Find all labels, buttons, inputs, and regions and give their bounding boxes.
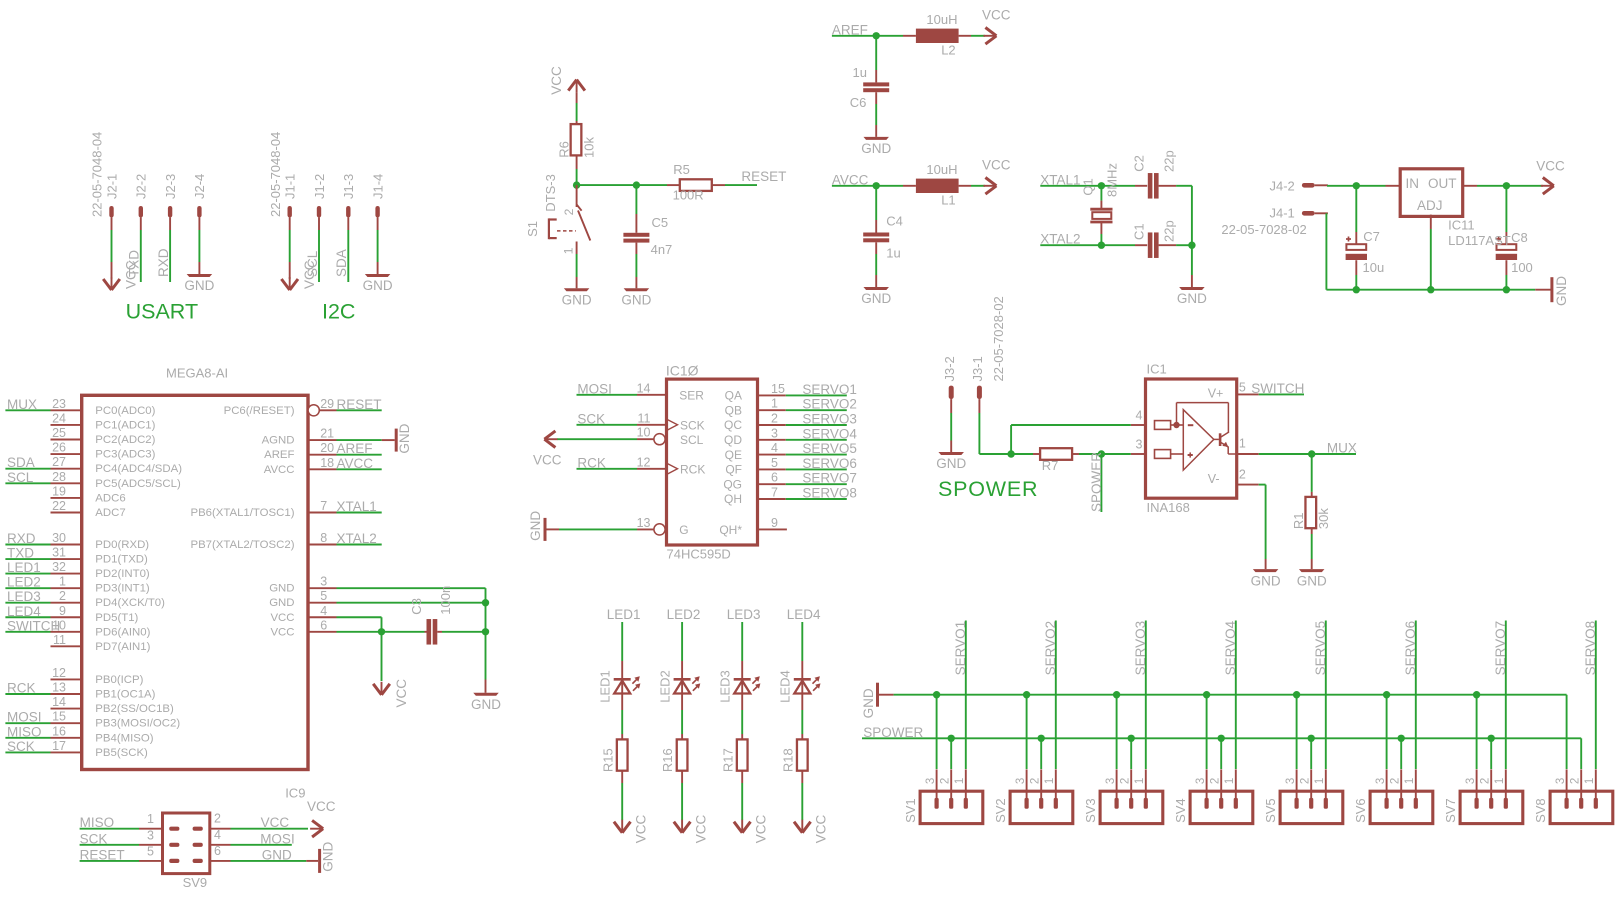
svg-text:2: 2 (1030, 778, 1042, 784)
svg-text:SPOWER: SPOWER (938, 477, 1038, 501)
svg-text:V-: V- (1208, 472, 1220, 486)
svg-text:PB0(ICP): PB0(ICP) (95, 674, 143, 686)
svg-text:PC1(ADC1): PC1(ADC1) (95, 419, 155, 431)
svg-text:GND: GND (262, 847, 292, 862)
svg-text:LD117AST: LD117AST (1448, 233, 1511, 248)
svg-text:C1: C1 (1131, 223, 1146, 240)
svg-text:22: 22 (52, 499, 66, 513)
svg-text:2: 2 (771, 412, 778, 426)
svg-text:74HC595D: 74HC595D (667, 547, 731, 562)
svg-text:SERVO5: SERVO5 (1313, 621, 1328, 676)
svg-text:C6: C6 (850, 95, 867, 110)
svg-text:22-05-7048-04: 22-05-7048-04 (90, 132, 105, 217)
svg-text:C5: C5 (652, 215, 669, 230)
svg-text:QG: QG (723, 477, 742, 491)
svg-text:VCC: VCC (982, 8, 1011, 23)
svg-text:PD5(T1): PD5(T1) (95, 612, 138, 624)
svg-text:C2: C2 (1131, 155, 1146, 172)
svg-text:5: 5 (1239, 380, 1246, 394)
svg-text:MOSI: MOSI (7, 710, 42, 725)
svg-text:22-05-7048-04: 22-05-7048-04 (268, 132, 283, 217)
svg-text:14: 14 (637, 381, 651, 395)
svg-text:30k: 30k (1316, 508, 1331, 529)
svg-text:R7: R7 (1042, 458, 1059, 473)
svg-text:IC9: IC9 (285, 785, 305, 800)
svg-text:1u: 1u (853, 65, 867, 80)
svg-text:PB7(XTAL2/TOSC2): PB7(XTAL2/TOSC2) (190, 539, 294, 551)
svg-text:30: 30 (52, 531, 66, 545)
svg-text:LED3: LED3 (7, 589, 41, 604)
svg-text:L1: L1 (941, 193, 955, 208)
svg-text:AREF: AREF (264, 449, 294, 461)
svg-text:SERVO3: SERVO3 (802, 412, 857, 427)
svg-text:J1-4: J1-4 (370, 174, 385, 199)
svg-text:PB6(XTAL1/TOSC1): PB6(XTAL1/TOSC1) (190, 507, 294, 519)
svg-text:PD3(INT1): PD3(INT1) (95, 583, 150, 595)
svg-text:1: 1 (1314, 778, 1326, 784)
svg-text:VCC: VCC (533, 452, 562, 467)
svg-text:GND: GND (861, 688, 876, 718)
svg-text:J1-2: J1-2 (312, 174, 327, 199)
svg-text:G: G (679, 523, 688, 537)
svg-text:RXD: RXD (7, 531, 36, 546)
svg-text:2: 2 (1390, 778, 1402, 784)
svg-text:SV8: SV8 (1533, 798, 1548, 823)
svg-text:26: 26 (52, 441, 66, 455)
svg-text:J2-3: J2-3 (163, 174, 178, 199)
svg-text:R17: R17 (720, 748, 735, 772)
svg-text:MUX: MUX (7, 397, 37, 412)
svg-text:RESET: RESET (741, 169, 786, 184)
svg-text:RESET: RESET (337, 397, 382, 412)
svg-text:L2: L2 (941, 43, 955, 58)
svg-text:LED2: LED2 (658, 670, 673, 703)
svg-text:J2-2: J2-2 (134, 174, 149, 199)
svg-text:2: 2 (59, 589, 66, 603)
svg-text:PD0(RXD): PD0(RXD) (95, 539, 149, 551)
svg-text:22p: 22p (1162, 220, 1177, 242)
svg-text:2: 2 (1570, 778, 1582, 784)
svg-text:MISO: MISO (80, 815, 115, 830)
svg-text:LED4: LED4 (787, 607, 821, 622)
svg-text:1: 1 (1404, 778, 1416, 784)
svg-text:17: 17 (52, 739, 66, 753)
svg-text:8MHz: 8MHz (1104, 163, 1119, 197)
svg-text:SV2: SV2 (993, 798, 1008, 823)
svg-text:I2C: I2C (322, 299, 355, 323)
svg-text:GND: GND (936, 456, 966, 471)
svg-text:VCC: VCC (261, 815, 290, 830)
svg-text:SV3: SV3 (1083, 798, 1098, 823)
svg-text:ADC7: ADC7 (95, 507, 125, 519)
svg-text:MEGA8-AI: MEGA8-AI (166, 366, 228, 381)
svg-text:PD4(XCK/T0): PD4(XCK/T0) (95, 597, 165, 609)
svg-text:LED3: LED3 (718, 670, 733, 703)
svg-text:PB4(MISO): PB4(MISO) (95, 732, 153, 744)
svg-text:13: 13 (637, 516, 651, 530)
svg-text:21: 21 (320, 427, 334, 441)
svg-text:MISO: MISO (7, 724, 42, 739)
svg-text:18: 18 (320, 456, 334, 470)
svg-text:3: 3 (147, 828, 154, 842)
svg-text:SERVO4: SERVO4 (802, 426, 857, 441)
svg-text:1: 1 (1134, 778, 1146, 784)
svg-text:QE: QE (725, 448, 742, 462)
svg-text:31: 31 (52, 546, 66, 560)
svg-text:SERVO6: SERVO6 (802, 456, 857, 471)
svg-text:20: 20 (320, 441, 334, 455)
svg-text:1: 1 (147, 812, 154, 826)
svg-text:J3-1: J3-1 (970, 356, 985, 381)
svg-text:12: 12 (52, 666, 66, 680)
svg-text:LED3: LED3 (727, 607, 761, 622)
svg-text:2: 2 (1210, 778, 1222, 784)
svg-text:3: 3 (771, 426, 778, 440)
svg-text:VCC: VCC (753, 815, 768, 844)
svg-text:5: 5 (320, 589, 327, 603)
svg-text:LED1: LED1 (7, 560, 41, 575)
svg-text:PB5(SCK): PB5(SCK) (95, 747, 148, 759)
svg-text:1: 1 (771, 397, 778, 411)
svg-text:SV4: SV4 (1173, 798, 1188, 823)
svg-text:10: 10 (637, 426, 651, 440)
svg-text:XTAL2: XTAL2 (337, 531, 377, 546)
svg-text:PC6(/RESET): PC6(/RESET) (224, 405, 295, 417)
svg-text:14: 14 (52, 695, 66, 709)
svg-text:VCC: VCC (270, 612, 294, 624)
svg-text:100R: 100R (673, 187, 704, 202)
svg-text:SCK: SCK (7, 739, 35, 754)
svg-text:PB3(MOSI/OC2): PB3(MOSI/OC2) (95, 718, 180, 730)
svg-text:23: 23 (52, 397, 66, 411)
svg-text:VCC: VCC (394, 679, 409, 708)
svg-text:SERVO7: SERVO7 (1493, 621, 1508, 676)
svg-text:SERVO2: SERVO2 (1043, 621, 1058, 676)
svg-text:SERVO4: SERVO4 (1223, 620, 1238, 675)
svg-text:5: 5 (771, 456, 778, 470)
svg-text:4: 4 (1136, 409, 1143, 423)
svg-text:GND: GND (528, 511, 543, 541)
svg-text:SDA: SDA (334, 249, 349, 277)
svg-text:15: 15 (52, 710, 66, 724)
svg-text:QA: QA (725, 389, 742, 403)
svg-text:LED1: LED1 (598, 670, 613, 703)
svg-text:SV9: SV9 (183, 875, 208, 890)
svg-text:RCK: RCK (7, 681, 36, 696)
svg-text:C8: C8 (1511, 230, 1528, 245)
svg-text:SERVO5: SERVO5 (802, 441, 857, 456)
svg-text:2: 2 (1300, 778, 1312, 784)
svg-text:2: 2 (214, 812, 221, 826)
svg-text:100n: 100n (438, 586, 453, 615)
svg-text:1: 1 (954, 778, 966, 784)
svg-text:GND: GND (397, 423, 412, 453)
svg-text:1: 1 (1239, 437, 1246, 451)
svg-text:AVCC: AVCC (264, 464, 295, 476)
svg-text:4n7: 4n7 (651, 242, 673, 257)
svg-text:Q1: Q1 (1081, 178, 1096, 195)
svg-text:7: 7 (320, 499, 327, 513)
svg-text:PD7(AIN1): PD7(AIN1) (95, 641, 150, 653)
svg-text:VCC: VCC (307, 799, 336, 814)
svg-text:GND: GND (562, 293, 592, 308)
svg-text:100: 100 (1511, 260, 1533, 275)
svg-text:AREF: AREF (337, 441, 373, 456)
svg-text:22p: 22p (1162, 150, 1177, 172)
svg-text:S1: S1 (525, 221, 540, 237)
svg-text:GND: GND (621, 293, 651, 308)
svg-text:RXD: RXD (156, 248, 171, 277)
svg-text:10u: 10u (1363, 260, 1385, 275)
svg-text:SV7: SV7 (1443, 798, 1458, 823)
svg-text:5: 5 (147, 844, 154, 858)
svg-text:ADJ: ADJ (1417, 198, 1443, 213)
svg-text:QC: QC (724, 418, 742, 432)
svg-text:R15: R15 (600, 748, 615, 772)
svg-text:SCL: SCL (7, 470, 34, 485)
svg-text:GND: GND (861, 291, 891, 306)
svg-text:15: 15 (771, 382, 785, 396)
svg-text:PB2(SS/OC1B): PB2(SS/OC1B) (95, 703, 174, 715)
svg-text:R1: R1 (1291, 512, 1306, 529)
svg-text:SERVO1: SERVO1 (802, 382, 857, 397)
svg-text:2: 2 (940, 778, 952, 784)
svg-text:GND: GND (1297, 573, 1327, 588)
svg-text:IC1Ø: IC1Ø (666, 363, 699, 379)
svg-text:VCC: VCC (270, 626, 294, 638)
svg-text:RESET: RESET (80, 847, 125, 862)
svg-text:GND: GND (363, 278, 393, 293)
svg-text:1: 1 (1494, 778, 1506, 784)
svg-text:SPOWER: SPOWER (1089, 452, 1104, 512)
svg-text:TXD: TXD (127, 250, 142, 277)
svg-text:J1-3: J1-3 (341, 174, 356, 199)
svg-text:8: 8 (320, 531, 327, 545)
svg-text:SCL: SCL (680, 433, 704, 447)
svg-text:R16: R16 (660, 748, 675, 772)
svg-text:SERVO2: SERVO2 (802, 397, 857, 412)
svg-text:V+: V+ (1208, 387, 1224, 401)
svg-text:SERVO6: SERVO6 (1403, 621, 1418, 676)
svg-text:3: 3 (1375, 778, 1387, 784)
svg-text:J2-1: J2-1 (104, 174, 119, 199)
svg-text:QH*: QH* (719, 523, 742, 537)
svg-text:PC0(ADC0): PC0(ADC0) (95, 405, 155, 417)
svg-text:SER: SER (679, 388, 704, 402)
svg-text:AGND: AGND (262, 435, 295, 447)
svg-text:3: 3 (1195, 778, 1207, 784)
svg-text:SERVO1: SERVO1 (953, 621, 968, 676)
svg-text:VCC: VCC (693, 815, 708, 844)
svg-text:1: 1 (561, 247, 575, 254)
svg-text:PD1(TXD): PD1(TXD) (95, 554, 148, 566)
svg-text:GND: GND (269, 583, 294, 595)
svg-text:J2-4: J2-4 (192, 174, 207, 199)
svg-text:10k: 10k (582, 137, 597, 158)
svg-text:GND: GND (1177, 291, 1207, 306)
svg-text:3: 3 (925, 778, 937, 784)
svg-text:1u: 1u (886, 245, 900, 260)
svg-text:SWITCH: SWITCH (7, 618, 60, 633)
svg-text:VCC: VCC (814, 815, 829, 844)
svg-text:PC5(ADC5/SCL): PC5(ADC5/SCL) (95, 478, 181, 490)
svg-text:VCC: VCC (1536, 158, 1565, 173)
svg-text:2: 2 (1120, 778, 1132, 784)
svg-text:SCK: SCK (80, 831, 108, 846)
svg-text:3: 3 (1555, 778, 1567, 784)
svg-text:C3: C3 (409, 598, 424, 615)
svg-text:SV1: SV1 (903, 798, 918, 823)
svg-text:QF: QF (725, 463, 742, 477)
svg-text:16: 16 (52, 724, 66, 738)
svg-text:J1-1: J1-1 (283, 174, 298, 199)
svg-text:SCK: SCK (577, 411, 605, 426)
svg-text:LED4: LED4 (778, 670, 793, 703)
svg-text:VCC: VCC (633, 815, 648, 844)
svg-text:TXD: TXD (7, 546, 34, 561)
svg-text:32: 32 (52, 560, 66, 574)
svg-text:GND: GND (321, 842, 336, 872)
svg-text:J4-1: J4-1 (1270, 206, 1295, 221)
svg-text:XTAL1: XTAL1 (337, 499, 377, 514)
svg-text:SV6: SV6 (1353, 798, 1368, 823)
svg-text:PD2(INT0): PD2(INT0) (95, 568, 150, 580)
svg-text:VCC: VCC (549, 66, 564, 95)
svg-text:R5: R5 (673, 162, 690, 177)
svg-text:LED2: LED2 (7, 575, 41, 590)
svg-text:2: 2 (1480, 778, 1492, 784)
svg-text:22-05-7028-02: 22-05-7028-02 (1221, 222, 1306, 237)
svg-text:3: 3 (1136, 438, 1143, 452)
svg-text:9: 9 (771, 516, 778, 530)
svg-text:AVCC: AVCC (337, 456, 374, 471)
svg-text:RCK: RCK (577, 455, 606, 470)
svg-text:1: 1 (1584, 778, 1596, 784)
svg-text:PB1(OC1A): PB1(OC1A) (95, 689, 155, 701)
svg-text:3: 3 (320, 575, 327, 589)
svg-text:29: 29 (320, 397, 334, 411)
svg-text:6: 6 (320, 618, 327, 632)
svg-text:28: 28 (52, 470, 66, 484)
svg-text:R18: R18 (780, 748, 795, 772)
svg-text:10uH: 10uH (926, 12, 957, 27)
svg-text:MOSI: MOSI (577, 381, 612, 396)
svg-text:IN: IN (1406, 176, 1420, 191)
svg-text:1: 1 (59, 575, 66, 589)
svg-text:RCK: RCK (680, 462, 705, 476)
svg-text:ADC6: ADC6 (95, 492, 125, 504)
svg-text:SERVO3: SERVO3 (1133, 621, 1148, 676)
svg-text:MOSI: MOSI (260, 831, 295, 846)
svg-text:25: 25 (52, 426, 66, 440)
svg-text:QB: QB (725, 403, 742, 417)
svg-text:J4-2: J4-2 (1270, 179, 1295, 194)
svg-text:GND: GND (1251, 573, 1281, 588)
svg-text:QD: QD (724, 433, 742, 447)
svg-text:IC11: IC11 (1448, 217, 1475, 232)
svg-text:PD6(AIN0): PD6(AIN0) (95, 626, 150, 638)
svg-text:PC4(ADC4/SDA): PC4(ADC4/SDA) (95, 463, 182, 475)
svg-text:QH: QH (724, 492, 742, 506)
svg-text:USART: USART (126, 299, 198, 323)
svg-text:LED4: LED4 (7, 604, 41, 619)
svg-text:SDA: SDA (7, 455, 35, 470)
svg-text:6: 6 (214, 844, 221, 858)
svg-text:3: 3 (1465, 778, 1477, 784)
svg-text:GND: GND (184, 278, 214, 293)
svg-text:6: 6 (771, 471, 778, 485)
svg-text:R6: R6 (556, 141, 571, 158)
svg-text:SWITCH: SWITCH (1251, 381, 1304, 396)
svg-text:1: 1 (1224, 778, 1236, 784)
svg-text:11: 11 (53, 633, 66, 647)
svg-text:SCK: SCK (680, 418, 705, 432)
svg-text:11: 11 (638, 411, 651, 425)
svg-text:C4: C4 (886, 214, 903, 229)
svg-text:12: 12 (637, 455, 651, 469)
svg-text:SV5: SV5 (1263, 798, 1278, 823)
svg-text:4: 4 (320, 604, 327, 618)
svg-text:24: 24 (52, 411, 66, 425)
svg-text:SCL: SCL (305, 250, 320, 277)
svg-text:IC1: IC1 (1147, 362, 1167, 377)
svg-text:GND: GND (269, 597, 294, 609)
svg-text:3: 3 (1105, 778, 1117, 784)
svg-text:3: 3 (1285, 778, 1297, 784)
svg-text:9: 9 (59, 604, 66, 618)
svg-text:MUX: MUX (1327, 441, 1357, 456)
svg-text:LED1: LED1 (607, 607, 641, 622)
svg-text:GND: GND (1554, 276, 1569, 306)
svg-text:1: 1 (1044, 778, 1056, 784)
svg-text:PC2(ADC2): PC2(ADC2) (95, 434, 155, 446)
svg-text:INA168: INA168 (1147, 500, 1190, 515)
svg-text:4: 4 (771, 441, 778, 455)
svg-text:3: 3 (1015, 778, 1027, 784)
svg-text:SERVO8: SERVO8 (802, 486, 857, 501)
svg-text:VCC: VCC (982, 158, 1011, 173)
svg-text:LED2: LED2 (667, 607, 701, 622)
svg-text:10uH: 10uH (926, 162, 957, 177)
svg-text:SERVO7: SERVO7 (802, 471, 857, 486)
svg-text:2: 2 (1239, 467, 1246, 481)
svg-text:GND: GND (471, 697, 501, 712)
svg-text:OUT: OUT (1428, 176, 1457, 191)
svg-text:13: 13 (52, 681, 66, 695)
svg-text:4: 4 (214, 828, 221, 842)
svg-text:7: 7 (771, 486, 778, 500)
svg-text:GND: GND (861, 141, 891, 156)
svg-text:19: 19 (52, 484, 66, 498)
svg-text:2: 2 (562, 208, 576, 215)
svg-text:SERVO8: SERVO8 (1583, 621, 1598, 676)
svg-text:C7: C7 (1363, 229, 1380, 244)
svg-text:27: 27 (52, 455, 66, 469)
svg-text:DTS-3: DTS-3 (543, 174, 558, 212)
svg-text:22-05-7028-02: 22-05-7028-02 (991, 296, 1006, 381)
svg-text:PC3(ADC3): PC3(ADC3) (95, 449, 155, 461)
svg-text:J3-2: J3-2 (942, 356, 957, 381)
